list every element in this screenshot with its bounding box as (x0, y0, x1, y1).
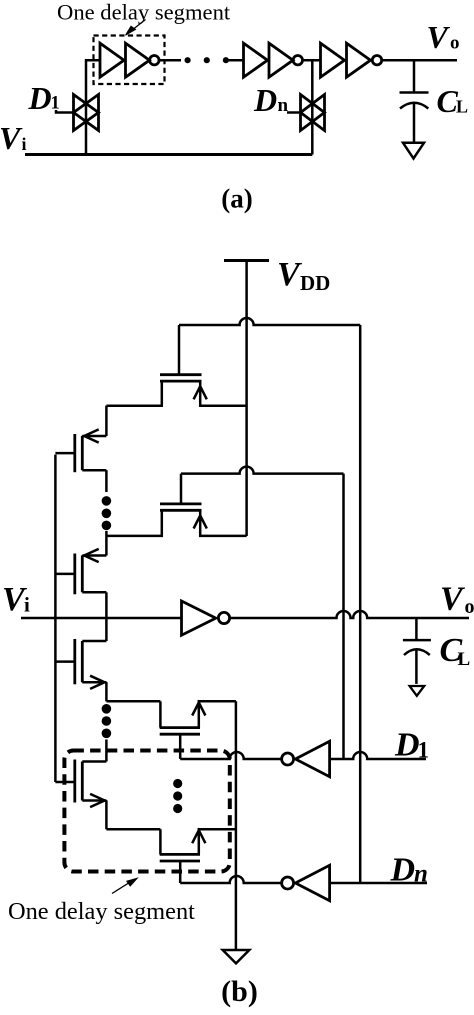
svg-text:1: 1 (418, 738, 430, 763)
svg-text:i: i (22, 134, 27, 154)
svg-text:V: V (440, 581, 465, 618)
svg-text:L: L (458, 649, 471, 670)
svg-text:DD: DD (300, 271, 330, 295)
svg-text:n: n (414, 861, 428, 888)
svg-text:D: D (28, 80, 52, 116)
svg-text:i: i (24, 593, 30, 617)
svg-text:(b): (b) (221, 975, 258, 1008)
svg-text:D: D (390, 852, 416, 889)
svg-text:D: D (394, 727, 420, 764)
svg-text:n: n (278, 95, 289, 116)
svg-text:o: o (465, 596, 474, 618)
svg-text:L: L (456, 97, 468, 117)
svg-text:V: V (0, 120, 23, 156)
svg-text:V: V (427, 19, 451, 55)
svg-text:D: D (253, 82, 277, 118)
svg-text:(a): (a) (221, 184, 252, 214)
svg-text:V: V (277, 256, 302, 293)
svg-text:o: o (450, 33, 460, 54)
svg-text:One delay segment: One delay segment (8, 898, 195, 925)
